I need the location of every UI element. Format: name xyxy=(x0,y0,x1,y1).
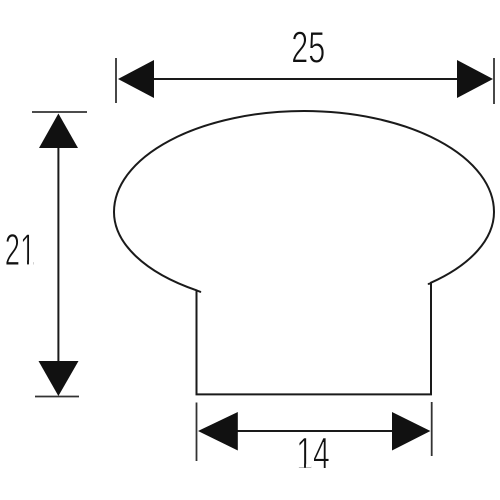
dimension 21 top arrowhead xyxy=(39,114,78,149)
dimension 25 right arrowhead xyxy=(457,60,493,98)
right shoulder nub xyxy=(429,282,431,285)
svg-text:21: 21 xyxy=(5,226,36,275)
label 14 xyxy=(296,429,330,478)
dimension 21 extension tick top xyxy=(32,111,87,113)
dimension 21 extension tick bottom xyxy=(35,396,79,398)
knob outline (elliptical cap with stem) xyxy=(114,111,494,394)
dimension 14 line xyxy=(236,430,394,432)
dimension 14 extension tick left xyxy=(196,403,198,462)
left shoulder nub xyxy=(197,291,201,292)
dimension 21 line xyxy=(57,146,59,363)
dimension 25 left arrowhead xyxy=(118,60,154,98)
label 25 xyxy=(291,23,325,72)
dimension 25 line xyxy=(152,78,459,80)
label 21 xyxy=(5,226,36,275)
dimension 14 right arrowhead xyxy=(392,412,430,451)
dimension 21 bottom arrowhead xyxy=(39,361,79,396)
svg-text:14: 14 xyxy=(296,429,330,478)
dimension 25 extension tick left xyxy=(115,58,117,103)
dimension 14 left arrowhead xyxy=(198,412,238,451)
dimension 25 extension tick right xyxy=(493,58,495,104)
svg-text:25: 25 xyxy=(291,23,325,72)
dimension 14 extension tick right xyxy=(431,402,433,456)
